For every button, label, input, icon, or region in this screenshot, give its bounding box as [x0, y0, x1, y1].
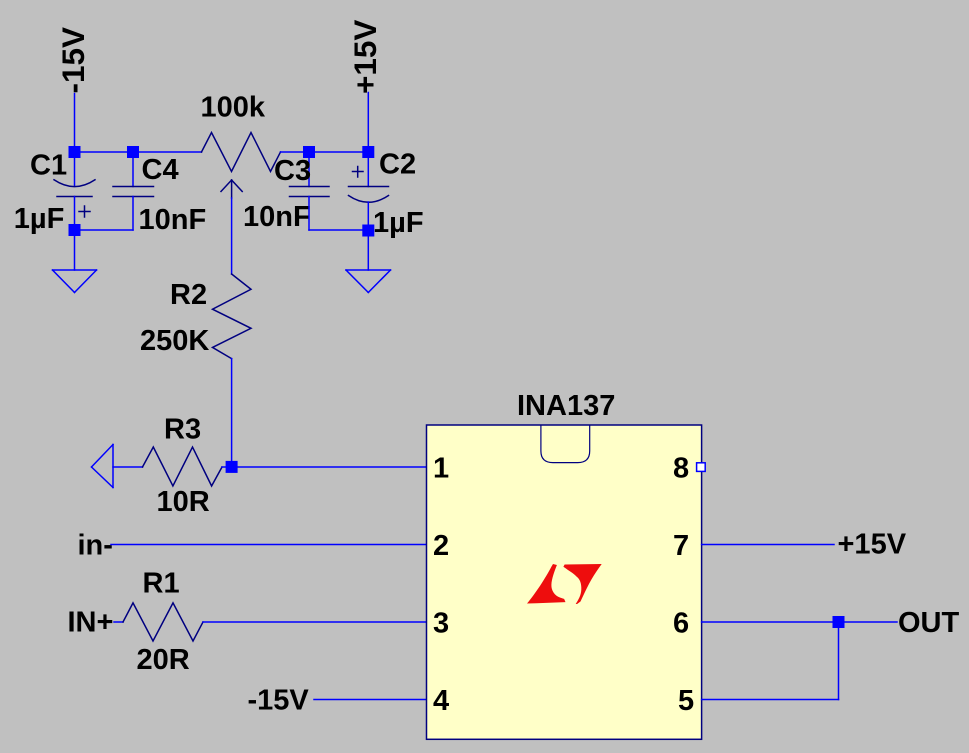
resistor R2 [213, 274, 252, 359]
svg-text:100k: 100k [201, 92, 266, 124]
svg-text:10R: 10R [157, 486, 210, 518]
svg-text:20R: 20R [137, 644, 190, 676]
node OUT junction [833, 616, 845, 628]
unconnected pin 8 marker [697, 463, 706, 472]
svg-text:10nF: 10nF [139, 204, 207, 236]
svg-text:1: 1 [433, 453, 449, 485]
svg-text:C3: C3 [274, 155, 311, 187]
svg-text:C1: C1 [30, 150, 67, 182]
svg-text:4: 4 [433, 685, 449, 717]
svg-text:10nF: 10nF [243, 201, 311, 233]
capacitor C3 [290, 187, 330, 197]
wire pin 5 stub [702, 699, 839, 701]
node R3/R2 junction [226, 461, 238, 473]
wire bottom-right rail [309, 229, 368, 231]
wire C1 bottom lead [74, 197, 76, 231]
svg-text:250K: 250K [140, 325, 209, 357]
node C2 top [362, 146, 374, 158]
node C4 top [127, 146, 139, 158]
wire IN+ to R1 [114, 621, 123, 623]
wire C4 top lead [132, 152, 134, 187]
svg-text:R1: R1 [143, 568, 180, 600]
svg-text:+15V: +15V [838, 529, 907, 561]
svg-text:3: 3 [433, 608, 449, 640]
LT logo right glyph [563, 564, 601, 604]
wire in- to pin 2 [111, 544, 427, 546]
wire -15V rail drop [74, 94, 76, 153]
LT logo left glyph [527, 564, 566, 604]
wire C3 bottom lead [308, 197, 310, 231]
capacitor C2 [349, 167, 389, 203]
wire C3 top lead [308, 152, 310, 187]
svg-text:C2: C2 [379, 149, 416, 181]
wire R3 to pin 1 [222, 466, 427, 468]
ground (left) [53, 270, 97, 293]
svg-text:INA137: INA137 [517, 390, 615, 422]
svg-text:R3: R3 [164, 414, 201, 446]
wire ground drop right [367, 230, 369, 270]
wire pin 6 to OUT [702, 621, 897, 623]
wire C2 top lead [367, 152, 369, 187]
IC notch [541, 426, 590, 463]
wire C2 bottom lead [367, 202, 369, 230]
svg-text:R2: R2 [170, 279, 207, 311]
wire -15V to pin 4 [314, 699, 427, 701]
wire pin 5 riser [838, 622, 840, 700]
capacitor C4 [113, 187, 154, 197]
potentiometer 100k body [202, 133, 281, 172]
capacitor C1 [54, 180, 95, 217]
svg-text:6: 6 [673, 608, 689, 640]
wire +15V rail drop [367, 93, 369, 153]
wire pin 7 to +15V [702, 544, 834, 546]
node C2 bottom [362, 225, 374, 237]
svg-text:-15V: -15V [248, 685, 310, 717]
wire C1 top lead [74, 152, 76, 186]
svg-text:1µF: 1µF [373, 207, 424, 239]
svg-text:IN+: IN+ [68, 607, 114, 639]
svg-text:OUT: OUT [898, 607, 960, 639]
wire R1 to pin 3 [203, 621, 427, 623]
svg-text:7: 7 [673, 530, 689, 562]
wire C4 bottom lead [132, 197, 134, 231]
node C3 top [303, 146, 315, 158]
op-amp U1 INA137 body [427, 425, 702, 739]
wire top-left rail [75, 151, 202, 153]
svg-text:2: 2 [433, 530, 449, 562]
resistor R3 [143, 447, 223, 486]
svg-text:5: 5 [678, 685, 694, 717]
svg-text:8: 8 [673, 453, 689, 485]
svg-text:1µF: 1µF [14, 203, 65, 235]
resistor R1 [123, 603, 203, 641]
input arrow (floating terminal) [92, 445, 143, 488]
wire wiper to R2 [231, 198, 233, 274]
node C1 bottom [69, 224, 81, 236]
wire bottom-left rail [75, 229, 134, 231]
wire R2 to node [231, 359, 233, 467]
svg-text:C4: C4 [142, 154, 179, 186]
potentiometer wiper arrow [221, 180, 242, 198]
node C1 top [69, 146, 81, 158]
ground (right) [346, 270, 391, 293]
wire top-right rail [281, 151, 369, 153]
svg-text:-15V: -15V [55, 27, 91, 94]
wire ground drop left [74, 230, 76, 270]
svg-text:in-: in- [78, 530, 113, 562]
svg-text:+15V: +15V [347, 20, 383, 94]
